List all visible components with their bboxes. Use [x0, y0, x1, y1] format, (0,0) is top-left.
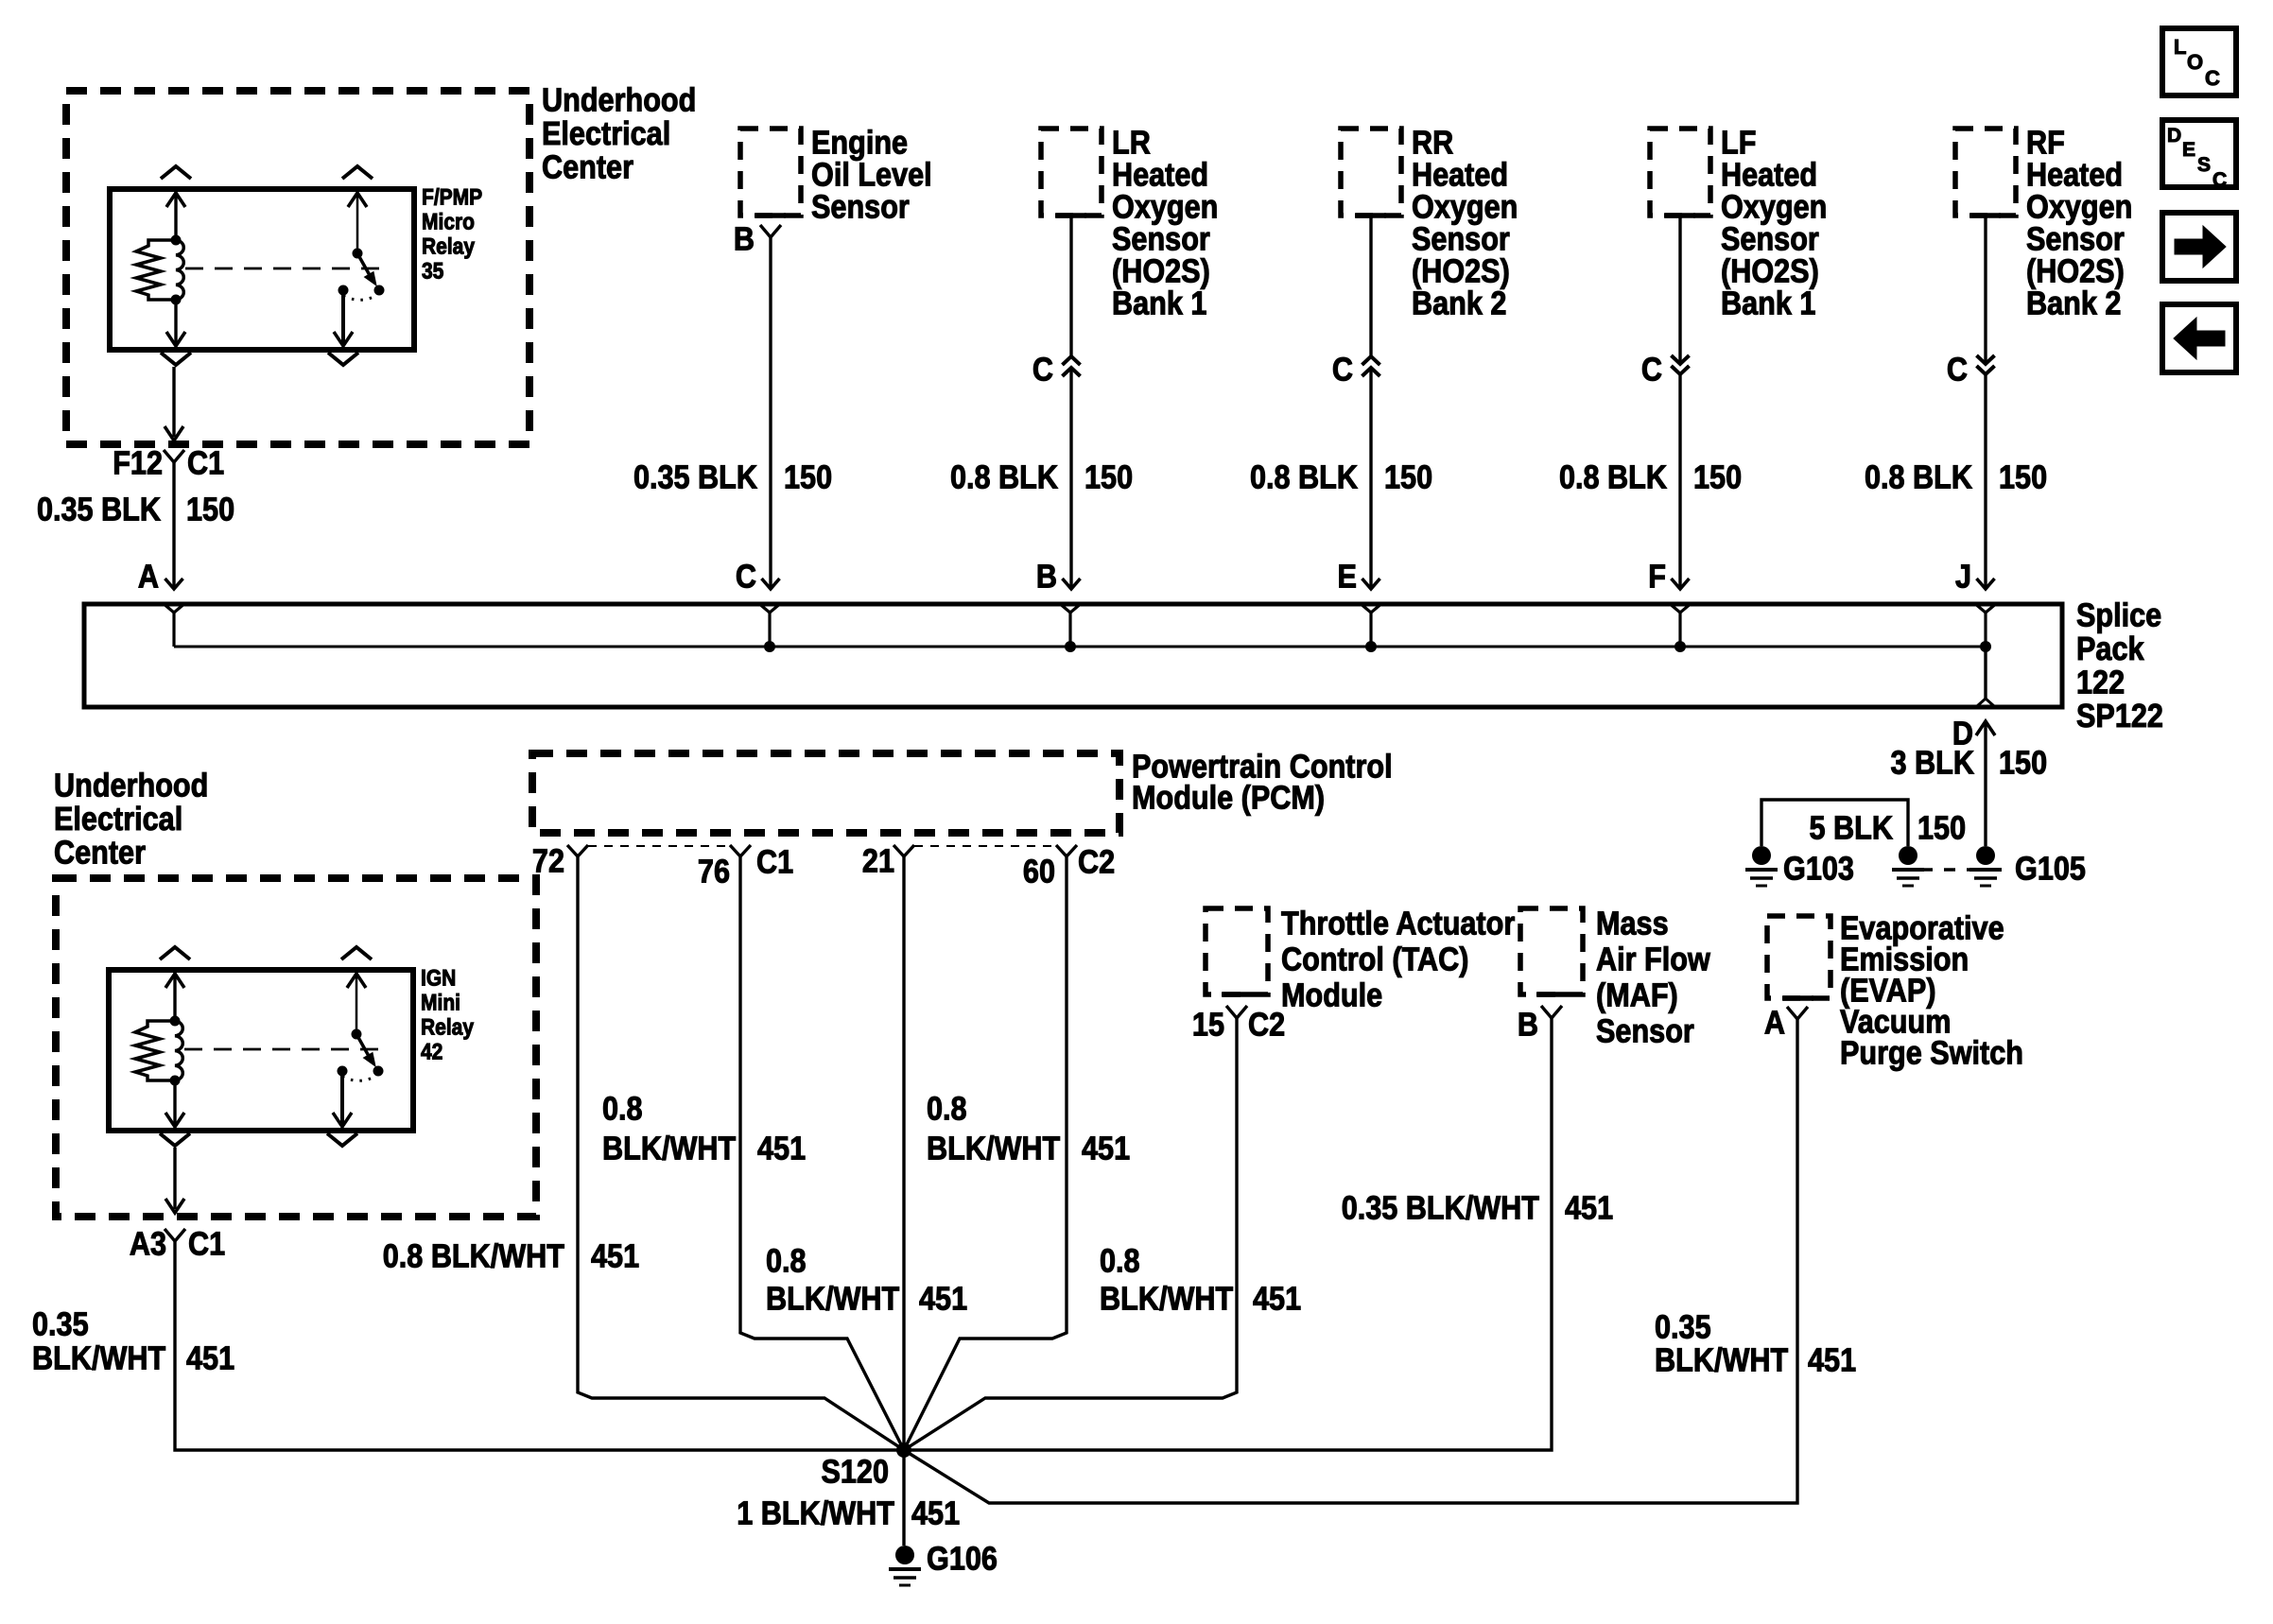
svg-text:Purge Switch: Purge Switch	[1840, 1035, 2023, 1072]
relay IGN Mini Relay 42 coil feed wire	[173, 970, 176, 1021]
svg-text:35: 35	[422, 259, 443, 285]
splice S120	[896, 1443, 911, 1458]
svg-text:J: J	[1955, 559, 1971, 596]
RF Heated Oxygen Sensor (HO2S) Bank 2 dashed box	[1955, 129, 2016, 216]
svg-text:5 BLK: 5 BLK	[1810, 810, 1893, 847]
svg-text:B: B	[734, 221, 755, 258]
svg-text:Center: Center	[54, 835, 146, 872]
svg-text:E: E	[1338, 559, 1357, 596]
wire Engine to splice pack	[769, 237, 772, 588]
wire LR to splice pack	[1069, 216, 1072, 356]
svg-text:150: 150	[1384, 459, 1432, 496]
svg-text:150: 150	[1999, 459, 2047, 496]
svg-text:150: 150	[784, 459, 832, 496]
splice pack entry E	[1362, 605, 1380, 613]
svg-text:Electrical: Electrical	[542, 115, 670, 152]
svg-text:150: 150	[1999, 745, 2047, 782]
svg-text:C: C	[736, 559, 756, 596]
svg-text:BLK/WHT: BLK/WHT	[602, 1131, 736, 1167]
connector pin 15/C2 at TAC	[1226, 1006, 1247, 1018]
svg-text:72: 72	[532, 843, 564, 880]
relay F/PMP Micro Relay 35 actuation dashed link	[185, 268, 386, 270]
icon button LOC	[2162, 28, 2236, 95]
in-line connector C on LF wire	[1672, 355, 1690, 374]
powertrain control module dashed box	[532, 753, 1119, 833]
PCM pin 76 connector	[730, 845, 751, 856]
svg-text:76: 76	[698, 854, 730, 890]
svg-text:BLK/WHT: BLK/WHT	[766, 1281, 899, 1318]
svg-text:C1: C1	[188, 1226, 225, 1263]
svg-text:C: C	[1032, 352, 1053, 389]
svg-text:0.8 BLK/WHT: 0.8 BLK/WHT	[383, 1238, 564, 1275]
evaporative emission vacuum purge switch dashed box	[1767, 916, 1831, 998]
underhood electrical center 2 dashed enclosure	[56, 878, 536, 1217]
relay F/PMP Micro Relay 35 pin chevron top-left	[161, 166, 191, 179]
wire G103 to G105 bond strap	[1761, 800, 1908, 846]
svg-text:451: 451	[911, 1495, 960, 1532]
relay F/PMP Micro Relay 35 coil feed wire	[174, 189, 177, 240]
svg-text:150: 150	[1693, 459, 1742, 496]
Engine Oil Level Sensor dashed box	[740, 129, 801, 216]
svg-text:G106: G106	[927, 1541, 998, 1578]
icon button DESC	[2162, 120, 2236, 187]
svg-text:D: D	[2167, 125, 2181, 147]
wire PCM pin 72 to S120	[578, 856, 904, 1450]
svg-text:3 BLK: 3 BLK	[1891, 745, 1974, 782]
svg-text:Micro: Micro	[422, 210, 475, 235]
wire PCM pin 21 to S120	[902, 856, 905, 1450]
svg-text:Module: Module	[1281, 977, 1382, 1014]
svg-text:60: 60	[1023, 854, 1055, 890]
svg-text:E: E	[2182, 139, 2195, 161]
svg-text:42: 42	[421, 1040, 442, 1065]
svg-text:0.8 BLK: 0.8 BLK	[1250, 459, 1358, 496]
relay IGN Mini Relay 42 switch output wire	[340, 1071, 344, 1127]
svg-text:BLK/WHT: BLK/WHT	[1100, 1281, 1233, 1318]
svg-text:1 BLK/WHT: 1 BLK/WHT	[737, 1495, 894, 1532]
svg-text:Mini: Mini	[421, 991, 460, 1016]
LR Heated Oxygen Sensor (HO2S) Bank 1 dashed box	[1041, 129, 1102, 216]
svg-text:Throttle Actuator: Throttle Actuator	[1281, 906, 1516, 942]
wire MAF to S120	[904, 1018, 1552, 1450]
svg-text:SP122: SP122	[2076, 698, 2163, 734]
svg-text:S: S	[2197, 154, 2211, 176]
svg-text:Bank 2: Bank 2	[1412, 285, 1506, 322]
svg-text:Control (TAC): Control (TAC)	[1281, 942, 1468, 978]
svg-text:451: 451	[1253, 1281, 1301, 1318]
PCM pin 60 connector	[1056, 845, 1077, 856]
splice pack entry B	[1062, 605, 1080, 613]
PCM connector dashed link	[914, 845, 1058, 847]
relay F/PMP Micro Relay 35 switch throw contact	[338, 285, 349, 296]
svg-text:451: 451	[1082, 1131, 1130, 1167]
svg-text:G105: G105	[2015, 851, 2086, 888]
svg-text:F: F	[1648, 559, 1666, 596]
splice pack exit D	[1984, 647, 1987, 700]
relay IGN Mini Relay 42 switch blade	[352, 1029, 362, 1040]
connector pin B at MAF	[1541, 1006, 1562, 1018]
underhood electrical center 1 dashed enclosure	[66, 91, 529, 444]
splice pack entry C	[761, 605, 779, 613]
relay IGN Mini Relay 42 coil ground wire	[173, 1080, 176, 1127]
svg-text:21: 21	[862, 843, 894, 880]
wire RF to splice pack	[1984, 216, 1987, 364]
connector A3/C1	[165, 1229, 185, 1241]
svg-text:C: C	[2205, 66, 2220, 90]
svg-text:0.8: 0.8	[1100, 1243, 1140, 1280]
svg-text:451: 451	[186, 1340, 234, 1377]
connector pin A at EVAP	[1787, 1007, 1808, 1019]
svg-text:150: 150	[1917, 810, 1966, 847]
relay IGN Mini Relay 42 pin chevron top-left	[160, 947, 190, 959]
svg-text:0.8: 0.8	[602, 1091, 643, 1128]
connector F12/C1	[164, 450, 184, 462]
svg-text:451: 451	[1808, 1342, 1856, 1379]
svg-text:0.35 BLK: 0.35 BLK	[633, 459, 757, 496]
svg-text:F12: F12	[113, 445, 163, 482]
svg-text:S120: S120	[821, 1454, 889, 1491]
throttle actuator control module dashed box	[1206, 908, 1268, 994]
relay F/PMP Micro Relay 35 pin chevron top-right	[342, 166, 373, 179]
wire A3 to S120	[175, 1241, 904, 1450]
svg-text:C2: C2	[1248, 1007, 1285, 1044]
svg-text:0.35 BLK: 0.35 BLK	[37, 492, 161, 528]
wire RR to splice pack	[1369, 216, 1372, 356]
wire EVAP to S120	[904, 1019, 1797, 1503]
svg-text:150: 150	[1084, 459, 1133, 496]
svg-text:Splice: Splice	[2076, 597, 2161, 634]
svg-text:Sensor: Sensor	[1596, 1013, 1694, 1050]
svg-text:IGN: IGN	[421, 966, 456, 992]
splice pack entry J	[1977, 605, 1995, 613]
relay F/PMP Micro Relay 35 case	[110, 189, 414, 350]
svg-text:A: A	[1764, 1005, 1785, 1042]
svg-text:0.8: 0.8	[927, 1091, 967, 1128]
relay IGN Mini Relay 42 coil suppression resistor	[135, 1021, 175, 1080]
splice pack entry A	[165, 605, 183, 613]
svg-text:C: C	[1947, 352, 1968, 389]
svg-text:0.8 BLK: 0.8 BLK	[1559, 459, 1667, 496]
svg-text:0.35 BLK/WHT: 0.35 BLK/WHT	[1342, 1190, 1539, 1227]
svg-text:Underhood: Underhood	[542, 82, 696, 119]
svg-text:Underhood: Underhood	[54, 768, 208, 804]
svg-text:Electrical: Electrical	[54, 801, 182, 838]
svg-text:A: A	[138, 559, 159, 596]
svg-text:G103: G103	[1783, 851, 1854, 888]
svg-text:Module (PCM): Module (PCM)	[1132, 780, 1325, 817]
svg-text:BLK/WHT: BLK/WHT	[1655, 1342, 1788, 1379]
svg-text:Pack: Pack	[2076, 631, 2144, 667]
svg-text:Bank 2: Bank 2	[2026, 285, 2121, 322]
svg-text:0.8 BLK: 0.8 BLK	[1865, 459, 1972, 496]
relay F/PMP Micro Relay 35 switch common wire	[356, 189, 359, 253]
relay F/PMP Micro Relay 35 coil ground wire	[174, 300, 177, 346]
wire F12 to splice pack A	[172, 462, 175, 588]
connector pin B at Engine	[760, 225, 781, 237]
in-line connector C on RR wire	[1362, 356, 1380, 376]
ground G103	[1745, 846, 1778, 886]
ground G105	[1969, 846, 2002, 886]
relay IGN Mini Relay 42 switch common wire	[356, 970, 358, 1034]
relay IGN Mini Relay 42 coil	[170, 1016, 181, 1027]
svg-text:C1: C1	[756, 844, 793, 881]
ground G106	[889, 1546, 921, 1585]
svg-text:L: L	[2174, 35, 2186, 59]
svg-text:BLK/WHT: BLK/WHT	[32, 1340, 165, 1377]
RR Heated Oxygen Sensor (HO2S) Bank 2 dashed box	[1341, 129, 1401, 216]
svg-text:451: 451	[1565, 1190, 1613, 1227]
svg-text:Center: Center	[542, 149, 633, 186]
svg-text:Air Flow: Air Flow	[1596, 942, 1710, 978]
wire relay42 coil to A3 connector	[173, 1148, 176, 1209]
splice pack SP122 case	[84, 604, 2062, 707]
wire S120 to ground G106	[902, 1450, 905, 1546]
relay IGN Mini Relay 42 pin chevron bottom-left	[160, 1133, 190, 1146]
svg-text:451: 451	[757, 1131, 806, 1167]
svg-text:451: 451	[919, 1281, 967, 1318]
svg-text:C: C	[1332, 352, 1353, 389]
svg-text:122: 122	[2076, 665, 2125, 701]
svg-text:(MAF): (MAF)	[1596, 977, 1678, 1014]
svg-text:C1: C1	[187, 445, 224, 482]
PCM pin 72 connector	[567, 845, 588, 856]
relay F/PMP Micro Relay 35 pin chevron bottom-right	[328, 353, 358, 365]
svg-text:Relay: Relay	[421, 1015, 475, 1041]
wire splice D to ground G105	[1976, 721, 1995, 735]
mass air flow sensor dashed box	[1520, 908, 1583, 994]
splice pack entry F	[1672, 605, 1690, 613]
svg-text:C2: C2	[1078, 844, 1115, 881]
relay F/PMP Micro Relay 35 coil suppression resistor	[136, 240, 176, 300]
wire PCM pin 60 to S120	[904, 856, 1067, 1450]
svg-text:A3: A3	[130, 1226, 166, 1263]
svg-text:C: C	[1641, 352, 1662, 389]
icon button arrow left	[2162, 304, 2236, 372]
svg-text:Mass: Mass	[1596, 906, 1669, 942]
svg-text:Bank 1: Bank 1	[1112, 285, 1206, 322]
svg-text:C: C	[2212, 169, 2227, 191]
relay F/PMP Micro Relay 35 pin chevron bottom-left	[161, 353, 191, 365]
svg-text:15: 15	[1192, 1007, 1224, 1044]
svg-text:Relay: Relay	[422, 234, 476, 260]
svg-text:O: O	[2187, 50, 2203, 74]
svg-text:BLK/WHT: BLK/WHT	[927, 1131, 1060, 1167]
relay F/PMP Micro Relay 35 coil	[171, 235, 182, 246]
wire TAC pin15 to S120	[904, 1018, 1237, 1450]
svg-text:0.8: 0.8	[766, 1243, 807, 1280]
svg-text:B: B	[1036, 559, 1057, 596]
svg-text:Sensor: Sensor	[811, 189, 910, 226]
relay IGN Mini Relay 42 case	[109, 970, 413, 1131]
svg-text:F/PMP: F/PMP	[422, 185, 482, 211]
relay IGN Mini Relay 42 pin chevron top-right	[341, 947, 372, 959]
in-line connector C on RF wire	[1977, 355, 1995, 374]
wire relay35 coil to F12 connector	[172, 367, 175, 437]
svg-text:0.8 BLK: 0.8 BLK	[950, 459, 1058, 496]
in-line connector C on LR wire	[1063, 356, 1081, 376]
dashed bond G105	[1921, 868, 1972, 872]
splice pack internal bus	[174, 646, 1986, 648]
svg-text:0.35: 0.35	[1655, 1309, 1711, 1346]
svg-text:150: 150	[186, 492, 234, 528]
svg-text:Bank 1: Bank 1	[1721, 285, 1815, 322]
svg-text:0.35: 0.35	[32, 1306, 89, 1343]
ground mid point	[1892, 846, 1924, 886]
wire PCM pin 76 to S120	[740, 856, 904, 1450]
relay IGN Mini Relay 42 actuation dashed link	[184, 1048, 385, 1051]
relay IGN Mini Relay 42 switch throw contact	[338, 1066, 348, 1077]
wire LF to splice pack	[1678, 216, 1681, 364]
relay F/PMP Micro Relay 35 switch output wire	[341, 290, 345, 346]
relay F/PMP Micro Relay 35 switch blade	[353, 249, 363, 259]
PCM connector dashed link	[588, 845, 732, 847]
PCM pin 21 connector	[894, 845, 914, 856]
relay IGN Mini Relay 42 pin chevron bottom-right	[327, 1133, 357, 1146]
svg-text:451: 451	[591, 1238, 639, 1275]
svg-text:B: B	[1518, 1007, 1538, 1044]
icon button arrow right	[2162, 213, 2236, 281]
LF Heated Oxygen Sensor (HO2S) Bank 1 dashed box	[1650, 129, 1710, 216]
